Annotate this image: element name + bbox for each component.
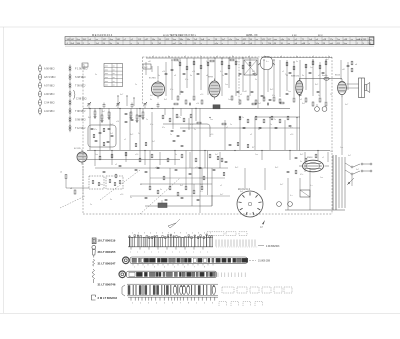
IF dashed divider [238,58,240,105]
svg-text:4x: 4x [168,56,170,58]
svg-text:47x: 47x [190,124,193,126]
sub-box L22 [106,176,123,189]
svg-text:47x: 47x [94,129,97,131]
svg-text:x3: x3 [174,75,176,77]
svg-text:5: 5 [156,233,157,235]
svg-text:0.x: 0.x [220,71,223,73]
svg-text:2x: 2x [242,117,244,119]
svg-text:4x7: 4x7 [200,184,204,186]
svg-text:4x7: 4x7 [152,141,155,143]
svg-text:47x: 47x [185,79,188,81]
trimmer C1 [87,102,91,106]
trimmer C2 [116,102,120,106]
svg-text:2x: 2x [146,119,148,121]
resistor R31 [65,175,67,179]
svg-text:8x2: 8x2 [164,99,167,101]
icon spring tall [92,269,95,280]
svg-text:8x2: 8x2 [315,84,319,86]
svg-text:ECH81: ECH81 [149,78,157,80]
svg-text:2x: 2x [200,56,202,58]
svg-text:18 LT 806/119: 18 LT 806/119 [98,239,116,243]
valve voltage table [104,64,123,87]
svg-text:8: 8 [174,233,175,235]
dial pointer [168,223,176,228]
svg-text:38 LT 806/255: 38 LT 806/255 [98,250,116,254]
row4 dashed boxes [222,287,292,293]
svg-text:1x: 1x [158,75,160,77]
svg-text:31 LT 806/247: 31 LT 806/247 [98,261,116,265]
svg-text:2: 2 [140,303,141,305]
svg-text:2: 2 [138,233,139,235]
mains transformer T1 [333,155,345,210]
svg-text:1xx: 1xx [255,154,258,156]
svg-text:T 98 98C/: T 98 98C/ [75,110,86,113]
svg-text:7: 7 [180,303,181,305]
svg-text:8x2: 8x2 [110,133,113,135]
svg-text:x2: x2 [60,172,63,174]
page bottom edge [0,313,400,315]
wire verticals [90,58,348,213]
svg-text:S 98 98C/: S 98 98C/ [75,76,86,79]
padder C5 [131,105,134,106]
osc drop wires [164,108,166,115]
svg-text:x10: x10 [210,134,214,136]
title strip table [65,37,374,47]
svg-text:x10: x10 [162,71,165,73]
svg-text:0.x: 0.x [200,191,203,193]
svg-text:x2: x2 [300,99,303,101]
svg-text:8: 8 [188,303,189,305]
svg-text:A 90 98C/: A 90 98C/ [44,93,55,96]
svg-text:x10: x10 [192,71,195,73]
svg-text:A 90-98C/: A 90-98C/ [44,68,55,71]
svg-text:47x: 47x [272,95,275,97]
svg-text:xx: xx [113,81,115,83]
icon clip [92,295,96,300]
svg-text:xx: xx [113,85,115,87]
svg-text:1: 1 [186,233,187,235]
wire lower-left [65,179,67,188]
AF-detector lower parts [99,152,317,180]
svg-text:1xx: 1xx [95,154,98,156]
svg-text:4: 4 [204,233,205,235]
svg-text:x: x [137,252,138,254]
electrolytic C60 [315,107,320,112]
row1 pointer label [258,245,264,247]
wire top bus 1 [146,57,258,59]
icon dial lamp [92,238,96,244]
icon spring small [93,259,95,266]
svg-text:7: 7 [194,267,195,269]
wire bot right rail [285,209,345,211]
svg-text:1xx: 1xx [225,84,228,86]
terminal strip [128,297,218,300]
svg-text:8x2: 8x2 [252,71,255,73]
svg-text:x10: x10 [120,194,124,196]
mains switch S1 [345,163,372,186]
wire anode bus [300,77,342,79]
osc wire path [163,124,210,137]
wire osc bus [255,116,300,118]
pre-IF parts [135,143,137,146]
icon knob [92,245,96,249]
svg-text:3x: 3x [175,154,177,156]
svg-text:4x7: 4x7 [356,169,359,171]
IF transformer chain [165,59,256,75]
title strip cell text [67,38,373,45]
wire lower h1 [95,167,228,169]
svg-text:t.t.b.b.: t.t.b.b. [357,38,363,41]
box tag [1] [82,63,88,67]
coil pack assembly [128,234,213,250]
svg-text:x: x [172,252,173,254]
row2 pins [133,264,213,266]
svg-text:xx: xx [113,77,115,79]
svg-text:3x: 3x [302,75,304,77]
svg-text:2x2: 2x2 [144,67,148,69]
svg-text:2x: 2x [222,75,224,77]
svg-text:EL84: EL84 [335,75,341,77]
svg-text:x2: x2 [312,56,314,58]
svg-text:T 12 98C/: T 12 98C/ [75,127,86,130]
svg-text:8x: 8x [232,56,234,58]
svg-text:2x: 2x [285,74,287,76]
IF stage parts [177,91,327,106]
wire V5 drop [341,97,343,155]
svg-text:xxx: xxx [105,77,108,79]
svg-text:xxx: xxx [105,81,108,83]
svg-text:4x7: 4x7 [280,184,284,186]
svg-text:x8: x8 [206,75,208,77]
svg-text:3x: 3x [150,99,152,101]
svg-text:8x2: 8x2 [88,117,91,119]
svg-text:2: 2 [192,233,193,235]
title strip headings [92,34,323,37]
svg-text:0.x: 0.x [266,61,269,63]
svg-text:4x7: 4x7 [120,94,124,96]
wire IF bus [87,150,330,152]
wire af drops [149,151,151,187]
coupling coil big [258,56,274,69]
component value labels [88,59,359,206]
valve V5 EL84 [338,79,347,97]
svg-text:xxx: xxx [105,85,108,87]
mains fuse [347,178,354,185]
svg-text:xM: xM [148,61,151,63]
svg-text:5: 5 [210,233,211,235]
rectifier block [300,190,310,197]
svg-text:2x: 2x [194,129,196,131]
svg-text:3: 3 [144,233,145,235]
row1 dashed boxes [207,232,247,236]
svg-text:A/K 9 98C/: A/K 9 98C/ [44,76,56,79]
detector top parts [261,61,357,100]
svg-text:x10: x10 [196,103,199,105]
svg-text:x: x [165,252,166,254]
svg-text:x8: x8 [70,188,73,190]
bus parts [174,103,178,105]
svg-text:3: 3 [212,303,213,305]
svg-text:4: 4 [156,303,157,305]
svg-text:xx: xx [113,69,115,71]
output transformer T2 [347,78,365,98]
svg-text:2x: 2x [230,124,232,126]
svg-text:F 1 90 98C/: F 1 90 98C/ [75,68,88,71]
svg-text:4x: 4x [296,56,298,58]
svg-text:x7: x7 [318,75,320,77]
svg-text:4x7: 4x7 [258,103,261,105]
svg-text:x10: x10 [116,121,119,123]
svg-text:xxx: xxx [105,73,108,75]
svg-text:x2: x2 [240,94,243,96]
svg-text:0.x: 0.x [290,195,293,197]
svg-text:1xx: 1xx [228,99,231,101]
svg-text:x2: x2 [180,91,182,93]
svg-text:47x: 47x [150,124,153,126]
svg-text:4x7: 4x7 [348,155,351,157]
svg-text:9: 9 [180,233,181,235]
svg-text:x9: x9 [280,56,282,58]
wire top bus 2 [262,57,332,59]
valve V1 ECC85 [77,150,87,165]
svg-text:1xx: 1xx [330,151,333,153]
svg-text:0.x: 0.x [290,127,293,129]
svg-text:3x: 3x [110,199,112,201]
chassis dashed box [83,57,332,214]
svg-text:1xx: 1xx [100,184,103,186]
svg-text:3Y: 3Y [252,147,255,149]
coil pack pin numbers [132,233,211,235]
svg-text:8x2: 8x2 [240,191,243,193]
det mid parts [217,156,219,159]
svg-text:8x2: 8x2 [180,185,183,187]
oscillator parts [162,114,226,147]
row5 pi marks [219,302,263,307]
svg-text:47x: 47x [178,117,181,119]
svg-text:4x7: 4x7 [215,154,219,156]
svg-text:x: x [144,252,145,254]
svg-text:x: x [186,252,187,254]
svg-text:1xx: 1xx [288,91,291,93]
svg-text:3x: 3x [300,161,302,163]
svg-text:x7: x7 [184,56,186,58]
svg-text:3x: 3x [206,61,208,63]
svg-text:EM84: EM84 [307,157,313,159]
svg-text:M E X A R D 4 0 4: M E X A R D 4 0 4 [92,34,113,37]
svg-text:x4: x4 [248,56,250,58]
svg-text:x10: x10 [135,154,139,156]
sub-box L21 [89,176,104,189]
wire mid bottom [145,205,212,207]
svg-text:2x: 2x [270,124,272,126]
svg-text:8: 8 [204,267,205,269]
svg-text:0.x: 0.x [310,185,313,187]
svg-text:C 94 98C/: C 94 98C/ [44,102,55,105]
dark AM switch [213,105,220,109]
dial drive assembly [123,257,248,264]
wire af h [140,183,212,185]
electrolytic C70 [288,202,293,207]
svg-text:4: 4 [150,233,151,235]
tuning link dash [100,170,140,200]
svg-text:6: 6 [184,267,185,269]
resistor R32 [74,190,76,194]
svg-text:x: x [200,252,201,254]
svg-text:1xx: 1xx [310,67,313,69]
svg-text:8x2: 8x2 [270,89,274,91]
svg-text:7x: 7x [328,56,330,58]
wire junctions [89,57,326,151]
svg-text:3x: 3x [236,61,238,63]
svg-text:x2: x2 [226,127,228,129]
svg-text:4x7: 4x7 [220,194,224,196]
wire pot drop [211,195,213,206]
svg-text:0.x: 0.x [212,95,215,97]
svg-text:2x: 2x [170,134,172,136]
svg-text:xM: xM [244,91,247,93]
potentiometer vol [158,203,167,208]
AM input filter cluster [88,113,141,147]
svg-text:8x2: 8x2 [300,154,304,156]
svg-text:47x: 47x [162,127,165,129]
svg-text:x2: x2 [250,134,253,136]
discriminator parts [92,179,121,185]
wire det bus [180,127,300,129]
svg-text:8x2: 8x2 [130,134,134,136]
svg-text:1: 1 [196,303,197,305]
svg-text:5: 5 [164,303,165,305]
svg-text:xx: xx [113,66,115,68]
pushbutton assembly [119,271,245,278]
svg-text:6: 6 [172,303,173,305]
svg-text:8x2: 8x2 [275,167,279,169]
bracket icon row4 [122,285,125,296]
svg-text:5: 5 [174,267,175,269]
svg-text:2x: 2x [274,119,276,121]
svg-text:2: 2 [144,267,145,269]
AM bus shunt parts [94,108,145,122]
svg-text:8x2: 8x2 [302,103,305,105]
svg-text:xM: xM [342,69,345,71]
svg-text:x2: x2 [152,56,154,58]
svg-text:xx x: xx x [318,34,323,37]
svg-text:x10: x10 [200,94,204,96]
row2 top labels [130,252,208,254]
valve V6 EM84 [303,160,324,172]
svg-text:x1: x1 [216,56,218,58]
svg-text:AMPL. XX: AMPL. XX [246,34,258,37]
EM84 feed parts [295,170,297,174]
svg-text:T 99 98C/: T 99 98C/ [75,85,86,88]
svg-text:4x7: 4x7 [178,61,181,63]
svg-text:x10: x10 [290,134,294,136]
padder C6 [157,105,160,106]
legend column A (aerial coils) [39,64,56,115]
svg-text:4xx/4x: 4xx/4x [322,75,328,77]
svg-text:3x: 3x [255,79,257,81]
electrolytic C71 [277,202,282,207]
valve V3 EF89 [209,79,220,100]
svg-text:xxx: xxx [105,66,108,68]
wire FM bus [87,159,180,161]
row2 pointer label [249,259,256,261]
svg-text:xxx: xxx [105,69,108,71]
svg-text:x2: x2 [220,185,222,187]
svg-text:1: 1 [132,233,133,235]
svg-text:3: 3 [148,303,149,305]
svg-text:4x7: 4x7 [345,104,349,106]
svg-text:4 M 806/303: 4 M 806/303 [266,245,280,248]
svg-text:3x: 3x [160,189,162,191]
svg-text:x2: x2 [258,129,260,131]
wire V4 drop [298,95,300,151]
row5 pin numbers [132,303,213,305]
loudspeaker LS [365,83,370,93]
osc mixer parts [239,116,291,129]
svg-text:x2: x2 [124,139,126,141]
svg-text:2x: 2x [90,204,92,206]
svg-text:1xx: 1xx [320,177,323,179]
svg-text:3: 3 [198,233,199,235]
svg-text:x: x [151,252,152,254]
svg-text:3x: 3x [95,74,97,76]
padder C4 [103,105,106,106]
svg-text:x4: x4 [355,64,357,66]
svg-text:C 98 98C/: C 98 98C/ [76,98,87,101]
svg-text:x: x [179,252,180,254]
svg-text:A 97 98C/: A 97 98C/ [44,85,55,88]
svg-text:EF89: EF89 [208,77,214,79]
svg-text:2x: 2x [135,84,137,86]
svg-text:1: 1 [132,303,133,305]
IF can S10 [244,60,257,75]
svg-text:31 806 308: 31 806 308 [258,260,271,263]
svg-text:x: x [193,252,194,254]
svg-text:3: 3 [154,267,155,269]
electrolytic C61 [322,107,327,112]
svg-text:A7: A7 [260,226,264,229]
HT fuse [324,77,329,80]
svg-text:2 M LT 806/242: 2 M LT 806/242 [98,296,118,300]
svg-text:3x: 3x [296,61,298,63]
socket view B9A [237,191,263,217]
svg-text:4x7: 4x7 [150,95,153,97]
svg-text:x2: x2 [140,184,143,186]
valve V4 EABC80 [296,78,303,97]
svg-text:xx xx TEXTE DER XX-X SX x: xx xx TEXTE DER XX-X SX x [163,34,197,37]
svg-text:EABC80: EABC80 [291,75,300,78]
svg-text:8x2: 8x2 [235,167,239,169]
svg-text:2x: 2x [138,133,140,135]
svg-text:4x7: 4x7 [102,111,105,113]
V1 dashed screen [82,166,84,200]
svg-text:47x: 47x [300,174,303,176]
svg-text:47x: 47x [170,89,173,91]
svg-text:x2: x2 [322,157,324,159]
box 222 [143,64,151,69]
trimmer C3 [143,102,147,106]
svg-text:x xx: x xx [292,34,297,37]
IF coil strip [127,284,218,296]
svg-text:7: 7 [168,233,169,235]
svg-text:1xx: 1xx [340,147,343,149]
svg-text:6: 6 [162,233,163,235]
svg-text:x2: x2 [115,164,118,166]
svg-text:3x: 3x [130,197,132,199]
legend column B (osc coils) [69,65,88,133]
svg-text:9x: 9x [254,75,256,77]
svg-text:xx: xx [113,73,115,75]
